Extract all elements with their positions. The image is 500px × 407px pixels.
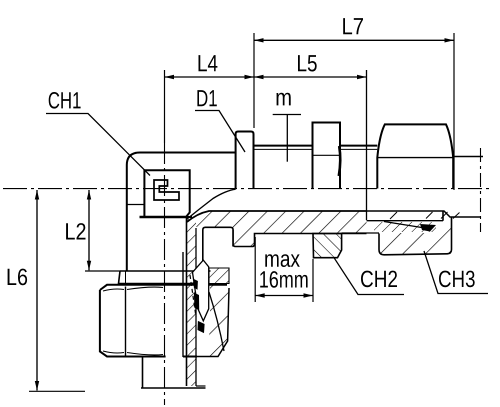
- body hex face square CH1: [140, 170, 193, 217]
- swivel nut top half: [377, 124, 453, 188]
- collar D1: [236, 132, 254, 189]
- swivel nut bottom section: [379, 217, 452, 255]
- washer right section: [209, 268, 229, 284]
- locknut top half: [313, 123, 341, 189]
- CH3 label: [439, 271, 475, 288]
- cone white shape: [193, 260, 209, 321]
- tube wall lower line: [367, 211, 482, 217]
- tube top: [453, 156, 483, 158]
- L5: [298, 55, 317, 71]
- CH2 label: [361, 271, 397, 288]
- L7: [343, 18, 363, 34]
- L6: [8, 269, 28, 286]
- L4: [199, 55, 218, 71]
- nut right section: [203, 285, 229, 357]
- olive cutting ring section: [374, 222, 436, 232]
- thread dashed diagonal: [190, 275, 196, 317]
- L2: [66, 223, 85, 239]
- vertical sectioned strip: [187, 219, 197, 386]
- band bottom / collar bottom: [233, 230, 367, 247]
- hex nut vertical left external: [100, 285, 227, 357]
- nut bore line: [367, 220, 444, 222]
- CH1 label: [49, 92, 81, 109]
- vertical centerline: [164, 143, 166, 405]
- max 16mm: [265, 254, 300, 267]
- gap line locknut to nut: [342, 232, 379, 234]
- small dark bit: [194, 279, 198, 290]
- G mark symbol: [154, 180, 179, 200]
- CH2 locknut section: [313, 234, 342, 258]
- tube axis mark right: [480, 148, 482, 232]
- body facet line: [127, 204, 145, 206]
- cone curve: [209, 292, 224, 351]
- thread lines: [254, 145, 313, 147]
- section: body+stud band: [187, 211, 367, 247]
- elbow body: [127, 153, 236, 272]
- thread dark bar: [194, 293, 199, 311]
- inner tube white band: [166, 286, 183, 387]
- stud end / L5 extension: [366, 70, 368, 220]
- tube wall slants: [390, 212, 397, 219]
- band top edge: [187, 211, 367, 222]
- washer left external: [119, 271, 211, 284]
- outer fillet curve: [187, 189, 236, 219]
- m label: [277, 93, 291, 106]
- neck white piece: [203, 227, 233, 262]
- horizontal centerline: [3, 188, 493, 190]
- thread dark blob lower: [198, 321, 205, 333]
- tube below nut: [142, 357, 144, 388]
- inner tube right edge: [182, 252, 184, 357]
- D1 label: [197, 90, 216, 106]
